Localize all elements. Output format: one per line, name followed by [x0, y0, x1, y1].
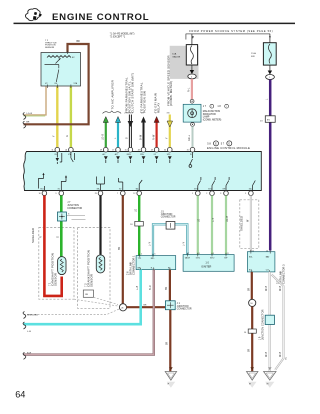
svg-text:6: 6: [155, 254, 156, 256]
svg-text:BR: BR: [119, 246, 121, 250]
svg-text:CONNECTOR 1: CONNECTOR 1: [131, 255, 135, 275]
svg-text:29: 29: [100, 149, 102, 151]
svg-text:CONNECTOR: CONNECTOR: [67, 208, 82, 210]
svg-text:*1: 5A–FE MODEL (MT): *1: 5A–FE MODEL (MT): [110, 32, 135, 35]
svg-text:LG–B: LG–B: [227, 216, 229, 222]
svg-text:SDL: SDL: [249, 189, 252, 191]
svg-text:IDL: IDL: [55, 154, 58, 156]
svg-text:(COMB. METER): (COMB. METER): [169, 81, 173, 106]
svg-text:EFI: EFI: [251, 56, 255, 58]
svg-text:BR: BR: [166, 286, 168, 290]
svg-text:24: 24: [65, 149, 67, 151]
svg-text:BR: BR: [249, 348, 251, 352]
svg-text:10A: 10A: [172, 53, 176, 56]
svg-text:7: 7: [188, 253, 189, 255]
svg-text:8: 8: [199, 253, 200, 255]
svg-text:CONNECTOR: CONNECTOR: [161, 217, 176, 219]
svg-text:NSW: NSW: [127, 154, 131, 156]
svg-text:3: 3: [220, 193, 221, 195]
svg-text:E1: E1: [58, 189, 60, 191]
svg-text:G: G: [67, 135, 69, 137]
svg-text:11: 11: [52, 149, 54, 151]
svg-text:GAUGE: GAUGE: [172, 55, 180, 58]
svg-text:CONNECTOR: CONNECTOR: [177, 309, 192, 311]
svg-text:CONNECTOR 3: CONNECTOR 3: [281, 264, 285, 284]
svg-text:15: 15: [125, 149, 127, 151]
svg-text:9: 9: [56, 193, 57, 195]
svg-text:IGNITER: IGNITER: [201, 265, 211, 268]
svg-text:(*1): (*1): [286, 357, 288, 360]
svg-text:E01: E01: [41, 189, 44, 191]
svg-text:10: 10: [39, 193, 41, 195]
svg-text:TO A/C AMPLIFIER: TO A/C AMPLIFIER: [110, 79, 114, 109]
svg-text:23: 23: [95, 193, 97, 195]
svg-text:E2: E2: [119, 189, 121, 191]
svg-text:SG: SG: [249, 269, 252, 271]
svg-text:12: 12: [252, 250, 254, 252]
svg-text:15 A: 15 A: [251, 52, 256, 55]
svg-text:SENSOR: SENSOR: [45, 47, 55, 49]
svg-text:18: 18: [151, 149, 153, 151]
svg-text:L–Y: L–Y: [149, 241, 151, 246]
svg-text:G: G: [58, 236, 60, 238]
svg-text:L–Y: L–Y: [184, 241, 186, 246]
svg-text:11: 11: [227, 253, 229, 255]
svg-text:IDL: IDL: [55, 83, 58, 85]
svg-text:CG: CG: [266, 269, 269, 271]
svg-text:W–B: W–B: [266, 352, 268, 357]
svg-text:W–B: W–B: [280, 286, 282, 291]
svg-text:LG: LG: [136, 209, 138, 212]
svg-text:L–B: L–B: [27, 331, 31, 333]
svg-text:8: 8: [68, 213, 69, 215]
svg-text:17: 17: [112, 149, 114, 151]
svg-text:BR: BR: [26, 122, 29, 124]
svg-text:7: 7: [117, 193, 118, 195]
svg-text:GR–L: GR–L: [189, 134, 191, 141]
svg-text:R–L: R–L: [189, 87, 191, 92]
svg-text:43: 43: [138, 149, 140, 151]
svg-text:JUNCTION: JUNCTION: [177, 306, 189, 308]
svg-text:(COMB. METER): (COMB. METER): [203, 118, 222, 121]
svg-text:R–W: R–W: [153, 134, 155, 140]
svg-text:B–W: B–W: [140, 134, 142, 140]
svg-text:ENGINE CONTROL: ENGINE CONTROL: [52, 12, 149, 23]
svg-text:9: 9: [213, 253, 214, 255]
svg-text:W–B: W–B: [266, 286, 268, 291]
svg-text:64: 64: [15, 390, 25, 400]
svg-text:ACT: ACT: [115, 153, 118, 156]
svg-text:16: 16: [266, 250, 268, 252]
svg-text:34: 34: [164, 149, 166, 151]
svg-text:W–B: W–B: [280, 352, 282, 357]
svg-text:SENSOR: SENSOR: [53, 273, 57, 286]
svg-text:1: 1: [192, 193, 193, 195]
svg-text:12: 12: [133, 193, 135, 195]
svg-text:JUNCTION: JUNCTION: [161, 214, 173, 216]
svg-text:IGF: IGF: [223, 189, 226, 191]
svg-text:BR: BR: [167, 341, 169, 345]
svg-text:4: 4: [141, 254, 142, 256]
svg-text:L–Y: L–Y: [213, 217, 215, 222]
svg-text:L–B: L–B: [137, 285, 139, 290]
svg-text:SENSOR: SENSOR: [89, 274, 93, 287]
svg-text:31: 31: [187, 149, 189, 151]
svg-text:JUNCTION CONNECTOR: JUNCTION CONNECTOR: [261, 309, 265, 340]
svg-text:2: 2: [206, 193, 207, 195]
svg-text:CLUTCH START SW (M/T): CLUTCH START SW (M/T): [131, 73, 135, 113]
svg-text:5: 5: [245, 193, 246, 195]
svg-text:*2: EXCEPT *1: *2: EXCEPT *1: [110, 37, 126, 39]
svg-text:JUNCTION: JUNCTION: [67, 205, 79, 207]
svg-text:RELAY: RELAY: [156, 102, 160, 113]
svg-text:POSITION SW: POSITION SW: [142, 91, 146, 113]
svg-text:1 0: 1 0: [205, 262, 209, 265]
svg-text:LG: LG: [199, 219, 201, 222]
svg-text:LG–B: LG–B: [103, 134, 105, 140]
svg-text:BR: BR: [77, 41, 81, 43]
svg-text:NE+: NE+: [97, 189, 100, 191]
svg-text:IGT2: IGT2: [208, 189, 212, 191]
svg-text:SHIELDED: SHIELDED: [27, 314, 38, 316]
svg-text:SHIELDED: SHIELDED: [239, 216, 243, 231]
svg-text:FROM POWER SOURCE SYSTEM (SEE: FROM POWER SOURCE SYSTEM (SEE PAGE 56): [189, 29, 273, 33]
svg-text:TACH: TACH: [185, 257, 191, 260]
svg-text:BR: BR: [249, 287, 251, 291]
svg-text:BR: BR: [144, 305, 147, 307]
svg-text:B–R: B–R: [27, 352, 32, 354]
svg-text:IGT1: IGT1: [194, 189, 198, 191]
svg-text:ENGINE CONTROL MODULE: ENGINE CONTROL MODULE: [207, 146, 250, 150]
svg-text:LG–R: LG–R: [27, 113, 33, 115]
svg-text:SHIELDED: SHIELDED: [31, 228, 35, 243]
svg-text:B–R: B–R: [150, 285, 152, 290]
